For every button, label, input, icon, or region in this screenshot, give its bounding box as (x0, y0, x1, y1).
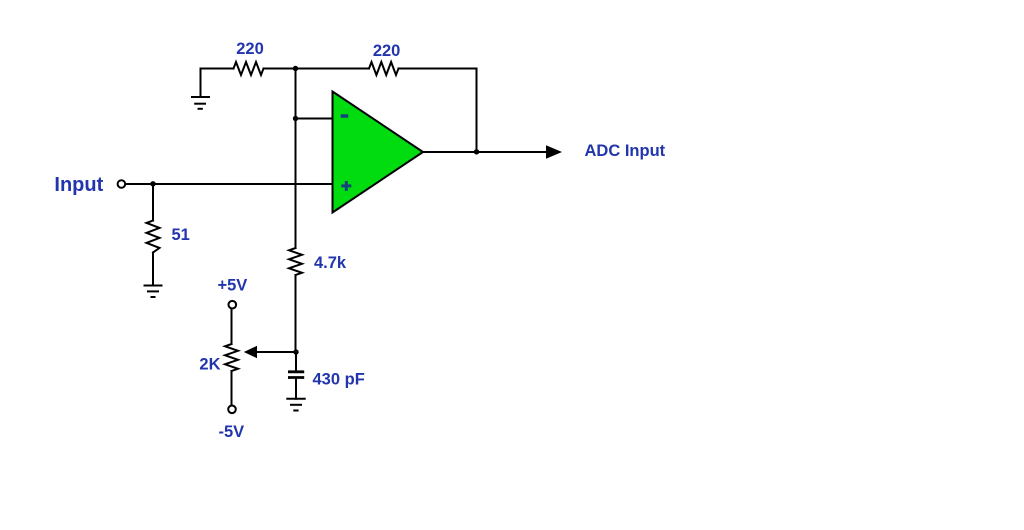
svg-text:+5V: +5V (218, 276, 248, 294)
svg-text:-5V: -5V (219, 423, 245, 441)
svg-text:220: 220 (236, 40, 264, 58)
svg-text:4.7k: 4.7k (314, 254, 347, 272)
svg-text:220: 220 (373, 42, 401, 60)
svg-text:51: 51 (172, 226, 190, 244)
svg-text:2K: 2K (199, 355, 220, 373)
svg-text:Input: Input (54, 174, 103, 196)
svg-text:ADC Input: ADC Input (585, 142, 666, 160)
svg-text:430 pF: 430 pF (313, 370, 365, 388)
